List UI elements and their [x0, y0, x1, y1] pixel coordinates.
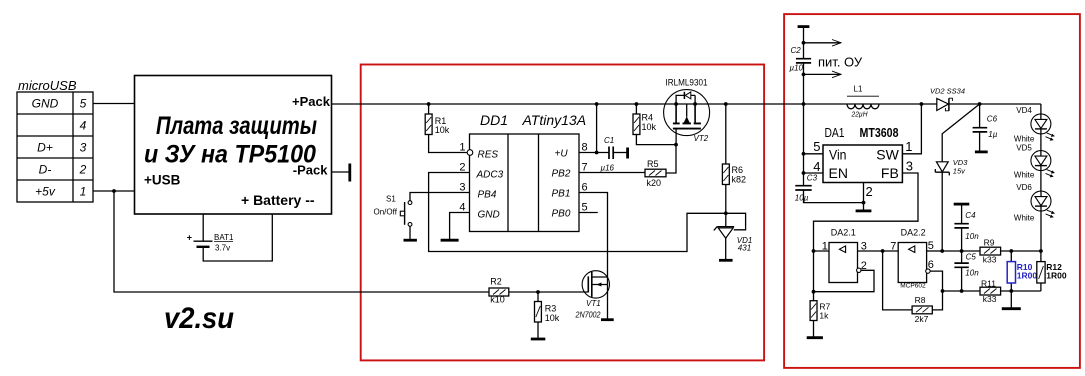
- svg-text:2: 2: [79, 163, 87, 177]
- svg-text:White: White: [1014, 213, 1035, 222]
- svg-text:C4: C4: [965, 211, 976, 220]
- svg-text:2: 2: [459, 162, 465, 174]
- svg-text:µ10: µ10: [790, 63, 804, 72]
- svg-text:GND: GND: [32, 97, 59, 111]
- svg-text:DD1: DD1: [480, 112, 508, 128]
- svg-text:R8: R8: [915, 295, 926, 305]
- svg-text:FB: FB: [881, 165, 899, 181]
- svg-text:EN: EN: [829, 165, 848, 181]
- svg-text:5: 5: [582, 202, 588, 214]
- svg-text:10µ: 10µ: [795, 193, 809, 202]
- svg-text:ATtiny13A: ATtiny13A: [522, 112, 587, 128]
- svg-text:4: 4: [459, 202, 465, 214]
- svg-text:k82: k82: [732, 174, 747, 184]
- svg-text:3: 3: [906, 159, 913, 174]
- svg-text:8: 8: [582, 142, 588, 154]
- svg-text:GND: GND: [478, 209, 500, 220]
- svg-text:1: 1: [459, 142, 465, 154]
- svg-text:4: 4: [80, 119, 87, 133]
- svg-text:10k: 10k: [435, 125, 450, 135]
- svg-text:D+: D+: [37, 141, 53, 155]
- svg-text:PB4: PB4: [478, 189, 497, 200]
- svg-text:1R00: 1R00: [1046, 271, 1067, 281]
- svg-text:VD6: VD6: [1016, 183, 1032, 192]
- svg-text:microUSB: microUSB: [18, 78, 77, 93]
- svg-text:4: 4: [813, 159, 820, 174]
- svg-text:PB0: PB0: [552, 209, 571, 220]
- svg-text:VD2 SS34: VD2 SS34: [930, 86, 965, 95]
- svg-text:C2: C2: [791, 46, 802, 55]
- svg-text:10n: 10n: [965, 269, 979, 278]
- svg-text:431: 431: [738, 244, 751, 253]
- svg-text:White: White: [1014, 171, 1035, 180]
- svg-text:VT1: VT1: [586, 299, 601, 308]
- svg-text:S1: S1: [386, 195, 396, 204]
- svg-text:SW: SW: [876, 147, 899, 163]
- svg-text:7: 7: [582, 162, 588, 174]
- svg-text:1: 1: [80, 185, 87, 199]
- svg-text:+U: +U: [555, 149, 569, 160]
- svg-text:2: 2: [861, 260, 867, 272]
- svg-text:RES: RES: [478, 149, 499, 160]
- svg-text:3.7v: 3.7v: [215, 244, 230, 253]
- svg-text:k10: k10: [490, 295, 505, 305]
- svg-text:5: 5: [813, 139, 820, 154]
- svg-text:6: 6: [928, 259, 934, 271]
- svg-text:+USB: +USB: [144, 173, 181, 188]
- svg-text:10k: 10k: [642, 122, 657, 132]
- svg-text:DA2.2: DA2.2: [901, 227, 926, 237]
- svg-text:22µH: 22µH: [851, 110, 868, 119]
- svg-text:R5: R5: [647, 159, 659, 169]
- svg-text:MT3608: MT3608: [860, 126, 899, 140]
- svg-text:Плата защиты: Плата защиты: [156, 112, 317, 140]
- svg-text:µ16: µ16: [601, 164, 615, 173]
- svg-text:k20: k20: [647, 178, 662, 188]
- svg-text:15v: 15v: [953, 166, 966, 175]
- svg-text:IRLML9301: IRLML9301: [666, 78, 708, 88]
- svg-text:L1: L1: [854, 85, 863, 94]
- svg-text:R2: R2: [490, 277, 502, 287]
- svg-text:VT2: VT2: [694, 134, 709, 143]
- svg-text:1: 1: [905, 139, 912, 154]
- svg-text:R11: R11: [981, 278, 996, 288]
- svg-text:6: 6: [582, 182, 588, 194]
- svg-text:5: 5: [928, 240, 934, 252]
- svg-text:3: 3: [80, 141, 87, 155]
- svg-text:k33: k33: [983, 254, 997, 264]
- svg-text:3: 3: [861, 241, 867, 253]
- svg-text:R9: R9: [984, 237, 995, 247]
- svg-text:1: 1: [822, 241, 828, 253]
- svg-text:White: White: [1014, 134, 1035, 143]
- svg-text:+5v: +5v: [35, 185, 56, 199]
- svg-text:On/Off: On/Off: [374, 208, 398, 217]
- svg-text:VD5: VD5: [1016, 143, 1032, 152]
- svg-text:2: 2: [866, 184, 873, 199]
- svg-text:R4: R4: [642, 113, 654, 123]
- svg-text:PB2: PB2: [552, 169, 571, 180]
- svg-text:Vin: Vin: [829, 147, 847, 163]
- svg-text:+: +: [187, 233, 192, 243]
- svg-text:1k: 1k: [819, 310, 829, 320]
- svg-text:R6: R6: [732, 165, 744, 175]
- svg-text:PB1: PB1: [552, 189, 571, 200]
- svg-text:1µ: 1µ: [988, 130, 997, 139]
- svg-text:k33: k33: [983, 294, 997, 304]
- svg-text:10n: 10n: [965, 232, 979, 241]
- svg-text:ADC3: ADC3: [476, 169, 504, 180]
- svg-text:DA1: DA1: [825, 125, 845, 140]
- svg-text:2N7002: 2N7002: [575, 310, 601, 319]
- svg-text:7: 7: [890, 241, 896, 253]
- svg-text:DA2.1: DA2.1: [831, 227, 856, 237]
- svg-text:1R00: 1R00: [1017, 271, 1038, 281]
- svg-text:C1: C1: [604, 136, 614, 145]
- svg-text:и ЗУ на TP5100: и ЗУ на TP5100: [144, 141, 316, 169]
- svg-text:-Pack: -Pack: [293, 163, 328, 178]
- svg-text:MCP602: MCP602: [900, 283, 926, 290]
- svg-text:+ Battery --: + Battery --: [241, 192, 315, 208]
- svg-text:2k7: 2k7: [915, 314, 929, 324]
- svg-text:пит. ОУ: пит. ОУ: [818, 55, 863, 70]
- svg-text:5: 5: [80, 97, 87, 111]
- svg-text:C5: C5: [966, 252, 977, 261]
- svg-text:v2.su: v2.su: [164, 302, 234, 335]
- svg-text:+Pack: +Pack: [292, 94, 331, 109]
- svg-text:BAT1: BAT1: [214, 233, 234, 242]
- svg-text:C6: C6: [987, 115, 998, 124]
- svg-text:D-: D-: [39, 163, 52, 177]
- svg-text:VD4: VD4: [1016, 106, 1032, 115]
- svg-text:3: 3: [459, 182, 465, 194]
- svg-text:R3: R3: [545, 304, 557, 314]
- svg-text:10k: 10k: [545, 313, 560, 323]
- svg-text:C3: C3: [807, 173, 818, 182]
